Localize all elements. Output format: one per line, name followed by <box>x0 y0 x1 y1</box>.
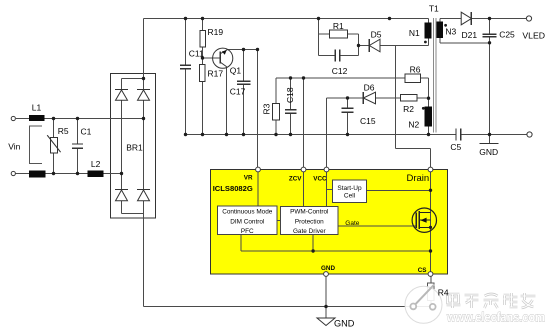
svg-text:Vin: Vin <box>8 141 20 151</box>
svg-text:VLED: VLED <box>522 31 545 41</box>
svg-text:N2: N2 <box>408 120 419 130</box>
svg-text:GND: GND <box>479 147 498 157</box>
svg-text:www.elecfans.com: www.elecfans.com <box>446 310 545 325</box>
svg-text:L1: L1 <box>32 103 42 113</box>
svg-text:C11: C11 <box>189 49 204 59</box>
svg-text:VR: VR <box>244 174 253 181</box>
svg-text:BR1: BR1 <box>126 143 143 153</box>
svg-text:VCC: VCC <box>313 176 327 183</box>
svg-text:ICLS8082G: ICLS8082G <box>213 184 253 193</box>
svg-text:PWM-Control: PWM-Control <box>290 209 328 216</box>
svg-text:R3: R3 <box>261 103 271 114</box>
svg-text:ZCV: ZCV <box>289 176 302 183</box>
svg-text:C18: C18 <box>285 87 295 103</box>
svg-text:DIM Control: DIM Control <box>230 218 264 225</box>
svg-text:C25: C25 <box>499 30 515 40</box>
svg-text:R4: R4 <box>438 287 449 297</box>
svg-text:PFC: PFC <box>241 228 254 235</box>
svg-text:CS: CS <box>418 267 427 274</box>
svg-text:R6: R6 <box>410 65 421 75</box>
svg-text:C1: C1 <box>81 127 92 137</box>
svg-text:R19: R19 <box>208 27 224 37</box>
svg-text:Q1: Q1 <box>230 65 242 75</box>
svg-text:GND: GND <box>334 319 355 329</box>
svg-text:Gate Driver: Gate Driver <box>293 228 327 235</box>
svg-text:R1: R1 <box>333 21 344 31</box>
svg-text:Drain: Drain <box>407 173 430 184</box>
svg-text:GND: GND <box>321 265 335 272</box>
svg-text:Cell: Cell <box>344 193 356 200</box>
svg-text:D6: D6 <box>364 83 375 93</box>
svg-text:Gate: Gate <box>345 220 359 227</box>
svg-text:Start-Up: Start-Up <box>337 185 362 192</box>
svg-text:C15: C15 <box>360 116 376 126</box>
svg-text:R5: R5 <box>58 126 69 136</box>
svg-text:C5: C5 <box>450 142 461 152</box>
svg-text:N1: N1 <box>409 28 420 38</box>
svg-text:T1: T1 <box>429 3 439 13</box>
svg-text:C17: C17 <box>230 87 246 97</box>
svg-text:N3: N3 <box>445 26 456 36</box>
svg-text:D21: D21 <box>462 30 478 40</box>
svg-text:R2: R2 <box>403 104 414 114</box>
svg-text:R17: R17 <box>208 69 224 79</box>
svg-text:L2: L2 <box>91 159 101 169</box>
svg-text:C12: C12 <box>332 66 348 76</box>
svg-text:Continuous Mode: Continuous Mode <box>222 209 273 216</box>
svg-text:D5: D5 <box>371 29 382 39</box>
svg-text:Protection: Protection <box>295 218 324 225</box>
